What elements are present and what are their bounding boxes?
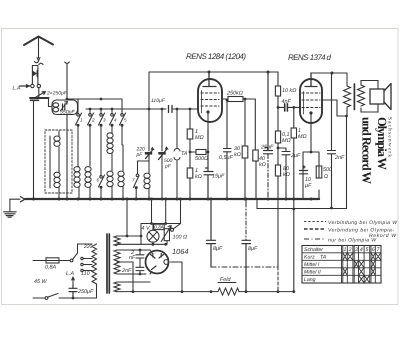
svg-text:2μF: 2μF — [290, 153, 301, 159]
svg-text:5: 5 — [365, 247, 368, 253]
svg-text:Sachsenwerk: Sachsenwerk — [387, 117, 393, 157]
caps 2nF rectifier — [136, 250, 144, 274]
HT rail wire — [149, 71, 278, 73]
svg-text:nF: nF — [129, 255, 136, 261]
node — [66, 198, 69, 201]
wire to ground — [10, 199, 20, 211]
switch 5 — [120, 99, 126, 145]
svg-text:4nF: 4nF — [282, 99, 292, 105]
node — [32, 198, 35, 201]
switch 3 — [99, 109, 105, 173]
legend dashed — [304, 228, 326, 230]
field coil Feld — [218, 288, 239, 295]
U2 anode — [305, 73, 317, 87]
coil L1 — [78, 166, 79, 199]
selector 220 tap wire — [78, 244, 93, 253]
output transformer primary — [344, 86, 351, 116]
junction dots bus — [58, 198, 313, 201]
svg-text:RENS 1284 (1204): RENS 1284 (1204) — [186, 52, 246, 61]
TA jacks — [174, 109, 180, 199]
svg-text:550pF: 550pF — [60, 110, 76, 116]
anode wire to output transformer — [322, 100, 347, 116]
svg-text:0,8A: 0,8A — [45, 265, 56, 271]
1MOhm grid R tube2 — [293, 107, 295, 209]
rotated brand block — [360, 117, 393, 185]
10kOhm R — [277, 72, 279, 107]
heater top rail — [141, 223, 181, 225]
arrester branch — [32, 66, 38, 85]
svg-text:μF: μF — [304, 183, 312, 189]
svg-text:L.A: L.A — [66, 271, 74, 277]
selector contacts — [81, 257, 83, 259]
svg-text:Mittel I: Mittel I — [304, 262, 320, 268]
svg-text:Schalter: Schalter — [304, 247, 323, 253]
svg-text:110: 110 — [81, 271, 90, 277]
HT winding — [114, 250, 120, 274]
svg-text:5: 5 — [124, 118, 127, 123]
link drop solid — [277, 199, 279, 267]
left loop — [140, 224, 142, 245]
transformer core — [107, 234, 109, 293]
svg-text:L.A: L.A — [13, 86, 21, 92]
coil tap line — [49, 136, 51, 188]
wire coil5 — [148, 72, 150, 151]
svg-text:MΩ: MΩ — [282, 138, 291, 144]
transformer core — [353, 84, 355, 110]
SECTION: coupling to tube 2 — [275, 72, 300, 293]
secondary leads — [361, 81, 378, 113]
svg-text:100 Ω: 100 Ω — [173, 235, 188, 241]
svg-text:25μF: 25μF — [260, 145, 274, 151]
svg-text:6: 6 — [372, 247, 375, 253]
trimmer 550pF coil — [53, 103, 59, 107]
coil L3 (osc) — [111, 154, 113, 200]
SECTION: tube 1 stage — [169, 71, 273, 200]
trimmer 550pF box — [52, 100, 78, 115]
svg-text:nur bei Olympia W: nur bei Olympia W — [328, 238, 377, 244]
L.A arrow up — [72, 277, 75, 285]
svg-text:110μF: 110μF — [151, 98, 166, 104]
svg-text:2: 2 — [348, 247, 352, 253]
svg-text:MΩ: MΩ — [195, 135, 204, 141]
coil L2 — [89, 188, 91, 200]
sub ground bus — [257, 199, 347, 209]
antenna coil — [58, 131, 60, 199]
1kOhm R — [187, 168, 193, 178]
svg-text:Ω: Ω — [324, 174, 328, 180]
fuse 0,8A — [46, 258, 59, 263]
svg-text:1: 1 — [344, 247, 347, 253]
var cap 220pF — [145, 152, 152, 155]
legend dotted — [304, 221, 326, 223]
cap 8uF no.1 — [207, 199, 216, 267]
svg-text:2×250pF: 2×250pF — [46, 91, 68, 97]
bus drops — [152, 199, 181, 224]
svg-text:1064: 1064 — [172, 247, 188, 256]
svg-text:2: 2 — [91, 118, 95, 123]
table header digits — [344, 247, 381, 253]
HT centre tap — [132, 262, 134, 292]
nur-Olympia dash-dot link — [211, 266, 278, 268]
SECTION: band filter / coil-switch block — [45, 72, 313, 201]
svg-text:Feld: Feld — [220, 277, 231, 283]
L.A arrow — [20, 85, 30, 88]
svg-text:10 kΩ: 10 kΩ — [282, 88, 296, 94]
table cols — [342, 246, 376, 284]
heater return to bus — [126, 199, 128, 236]
svg-text:TA: TA — [181, 151, 188, 157]
cap 250uF — [69, 285, 77, 298]
ground — [4, 212, 16, 217]
svg-text:pF: pF — [164, 164, 172, 170]
bus left chevron — [21, 197, 25, 202]
svg-text:45 W: 45 W — [34, 279, 47, 285]
trimmer cap — [63, 104, 65, 110]
svg-text:pF: pF — [136, 152, 144, 158]
svg-text:TA: TA — [320, 255, 327, 261]
switch 1 — [76, 99, 82, 166]
legend dashdot — [304, 238, 326, 240]
cap 15uF — [204, 130, 213, 199]
SECTION: output transformer and speaker — [344, 81, 392, 117]
rectifier tube 1064 — [146, 251, 169, 274]
svg-text:2nF: 2nF — [121, 268, 132, 274]
svg-text:250kΩ: 250kΩ — [226, 91, 243, 97]
wire antenna down — [33, 101, 35, 199]
svg-text:kΩ: kΩ — [234, 152, 241, 158]
500 Ohm R horizontal — [190, 151, 208, 153]
svg-text:1: 1 — [80, 118, 83, 123]
SECTION: tube 2 output stage — [300, 72, 348, 210]
svg-text:2nF: 2nF — [334, 155, 345, 161]
coil L4 — [122, 145, 124, 199]
SECTION: antenna input — [20, 37, 78, 201]
mains lead top — [33, 260, 46, 262]
grid wire — [278, 106, 300, 108]
grid wire tube1 — [86, 108, 198, 110]
svg-text:8μF: 8μF — [213, 246, 223, 252]
cap 25uF — [264, 72, 273, 154]
svg-text:500Ω: 500Ω — [195, 156, 208, 162]
cap 2uF — [278, 148, 290, 199]
tuning cap 2x250pF — [30, 97, 49, 99]
svg-text:8μF: 8μF — [248, 246, 258, 252]
30kOhm R — [244, 99, 246, 199]
anode load 250kOhm — [222, 99, 255, 150]
svg-text:Lang: Lang — [304, 277, 316, 283]
U2 inner frame — [303, 92, 305, 115]
rectifier leads — [150, 250, 152, 274]
second antenna lead — [65, 62, 70, 199]
0,1MOhm R — [277, 107, 279, 148]
selector tap wires — [83, 259, 92, 271]
svg-text:Mittel II: Mittel II — [304, 270, 321, 276]
tube U2 RENS 1374d — [300, 79, 322, 123]
anode node dot — [208, 71, 211, 74]
SECTION: switch table — [302, 246, 381, 284]
screen bypass 0,5uF — [224, 100, 232, 199]
secondary — [358, 85, 365, 106]
80kOhm R — [277, 148, 279, 199]
U1 inner frame — [201, 91, 203, 114]
svg-text:3: 3 — [355, 247, 358, 253]
SECTION: legend — [304, 222, 326, 240]
antenna — [24, 37, 53, 46]
dial lamp — [147, 230, 159, 242]
svg-text:und Record W: und Record W — [360, 117, 374, 185]
antenna coil box (dashed) — [45, 130, 72, 193]
B+ return wire — [346, 116, 348, 209]
svg-text:4: 4 — [360, 247, 363, 253]
U1 cathode — [206, 110, 209, 113]
speaker magnet — [370, 89, 384, 104]
SECTION: power supply — [33, 198, 183, 300]
U2 grids — [302, 93, 320, 108]
spark gap — [32, 71, 36, 76]
table frame — [302, 246, 381, 284]
selector switch arm — [70, 259, 73, 262]
tone cap 2nF — [328, 73, 336, 208]
grid leak 1MOhm R — [189, 109, 191, 199]
switch 7 — [134, 176, 140, 200]
svg-text:6: 6 — [97, 178, 100, 183]
primary winding — [92, 244, 97, 298]
switch 2 — [88, 109, 94, 166]
wire cap to trimmer box — [49, 99, 53, 107]
500 Ohm cathode R — [316, 166, 322, 178]
svg-text:Kurz: Kurz — [304, 255, 315, 261]
svg-text:0,5μF: 0,5μF — [219, 155, 233, 161]
svg-text:kΩ: kΩ — [259, 162, 266, 168]
wire switch-top — [67, 98, 122, 100]
svg-text:4: 4 — [114, 118, 117, 123]
cap 10uF — [300, 166, 308, 174]
contact circle — [171, 228, 174, 231]
svg-text:3: 3 — [103, 118, 106, 123]
svg-text:MΩ: MΩ — [298, 134, 307, 140]
heater winding 4V — [114, 236, 120, 246]
svg-text:7: 7 — [377, 247, 381, 253]
40kOhm R — [255, 161, 257, 199]
wire — [38, 88, 40, 97]
svg-text:kΩ: kΩ — [283, 172, 290, 178]
table rows — [302, 253, 381, 275]
cathode network loop — [303, 152, 319, 199]
cap 4nF — [285, 104, 288, 111]
speaker cone — [384, 84, 391, 110]
svg-text:7: 7 — [132, 178, 135, 183]
svg-text:Verbindung bei Olympia W: Verbindung bei Olympia W — [328, 220, 398, 226]
ground bus — [25, 198, 319, 200]
svg-text:250μF: 250μF — [77, 289, 94, 295]
SECTION: filter / field coil — [182, 198, 293, 296]
svg-text:4 V.: 4 V. — [142, 225, 151, 231]
U1 anode — [203, 72, 216, 87]
antenna coupling hooks — [35, 62, 44, 65]
tube U1 RENS 1284 — [198, 79, 222, 122]
lamp bottom rail — [141, 243, 167, 245]
svg-text:15μF: 15μF — [212, 174, 225, 180]
switch 6 — [99, 173, 105, 199]
cap 8uF no.2 (dash-dot lead) — [245, 199, 247, 203]
var cap 500pF — [161, 109, 163, 151]
rect heater winding — [114, 282, 120, 292]
svg-text:0,8A: 0,8A — [154, 225, 163, 230]
U2 cathode — [309, 111, 312, 114]
switch 4 — [110, 109, 116, 133]
svg-text:220: 220 — [83, 244, 93, 250]
cap 110pF — [169, 106, 173, 113]
svg-text:kΩ: kΩ — [195, 174, 202, 180]
junction dots grid wire — [66, 98, 192, 111]
mains switch bottom — [33, 297, 45, 299]
100 Ohm var R — [164, 229, 169, 241]
svg-text:500: 500 — [323, 167, 332, 173]
svg-text:RENS·1374 d: RENS·1374 d — [288, 53, 332, 62]
fuse box 0,8A — [154, 224, 165, 229]
coil L5 — [148, 155, 150, 199]
U1 grids — [201, 93, 219, 106]
terminal circles — [31, 84, 34, 87]
dashed drop — [277, 267, 279, 292]
table X marks — [343, 253, 381, 282]
SECTION: text labels — [13, 52, 399, 295]
